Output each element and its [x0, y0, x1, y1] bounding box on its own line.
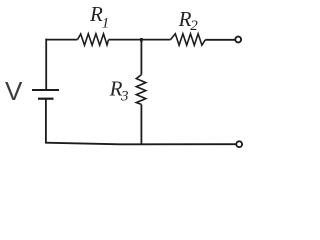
svg-text:2: 2	[190, 18, 198, 34]
svg-text:V: V	[5, 76, 23, 106]
svg-text:1: 1	[102, 16, 110, 32]
svg-text:3: 3	[120, 89, 129, 105]
